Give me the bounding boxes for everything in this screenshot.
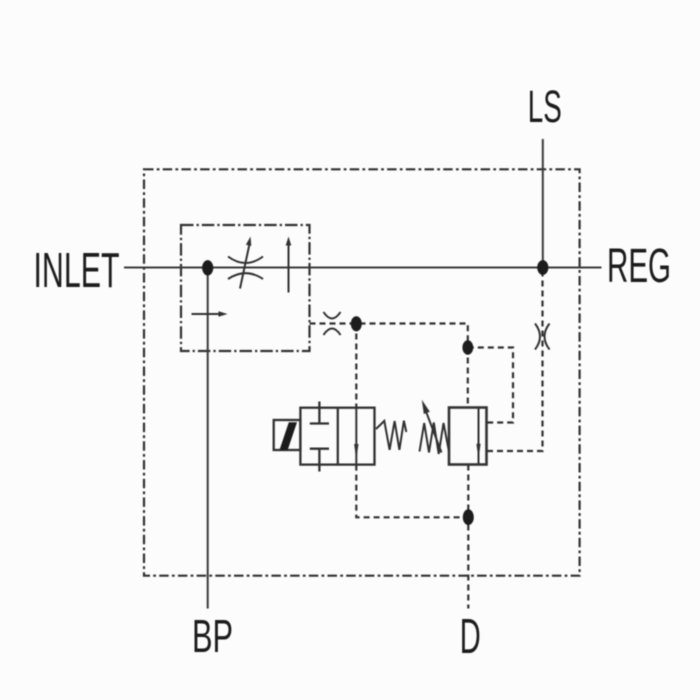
svg-text:BP: BP xyxy=(192,610,233,662)
svg-text:REG: REG xyxy=(607,239,671,293)
svg-text:INLET: INLET xyxy=(34,244,120,298)
svg-text:LS: LS xyxy=(528,81,562,132)
svg-text:D: D xyxy=(460,610,481,664)
